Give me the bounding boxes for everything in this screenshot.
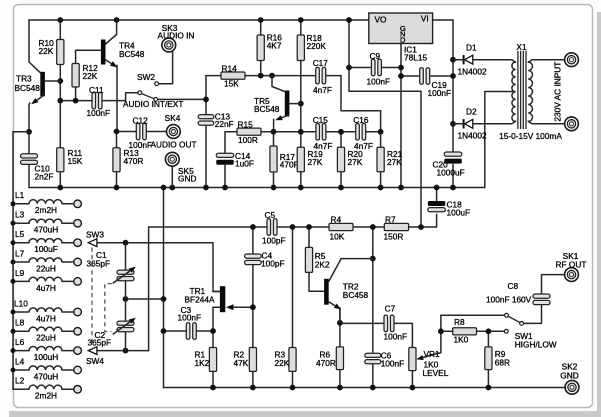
wire R16 column <box>260 20 262 76</box>
wire R10/R11 column <box>59 20 61 188</box>
svg-text:1N4002: 1N4002 <box>458 67 487 77</box>
wire TR1 gate lead <box>235 306 253 308</box>
capacitor C5 <box>267 219 277 236</box>
capacitor C4 <box>245 254 262 265</box>
svg-text:100uH: 100uH <box>34 352 58 362</box>
label R4 value <box>330 214 345 241</box>
label L10 <box>14 298 28 308</box>
svg-text:10K: 10K <box>330 231 345 241</box>
resistor R11 <box>57 148 64 172</box>
svg-text:L1: L1 <box>15 190 25 200</box>
svg-text:2m2H: 2m2H <box>35 205 57 215</box>
label R21 value <box>387 149 403 167</box>
wire tank top to SW4 column <box>148 227 150 351</box>
svg-text:C15: C15 <box>313 115 329 125</box>
node rail R17 <box>271 185 277 191</box>
svg-text:15K: 15K <box>68 156 83 166</box>
resistor R20 <box>337 147 344 172</box>
node R10/R11/C11 <box>57 98 63 104</box>
label C7 value <box>384 303 408 341</box>
node supply TR2coll <box>370 224 376 230</box>
resistor R4 <box>329 223 353 230</box>
resistor R8 <box>453 328 477 335</box>
svg-text:47K: 47K <box>234 358 249 368</box>
node C1 top <box>123 240 129 246</box>
resistor R16 <box>257 35 264 61</box>
capacitor C6 <box>365 353 381 364</box>
label AUDIO INT/EXT <box>123 99 183 109</box>
capacitor C12 <box>136 123 146 140</box>
wire C1/C2 junction to ground <box>126 298 164 300</box>
inductor L8 <box>11 327 82 335</box>
label L5 value <box>34 244 58 254</box>
svg-text:27K: 27K <box>308 157 323 167</box>
wire IC1 GND column <box>400 44 402 188</box>
svg-text:BC548: BC548 <box>254 104 280 114</box>
svg-text:1K2: 1K2 <box>195 358 210 368</box>
resistor R3 <box>289 348 296 372</box>
node rail IC gnd <box>398 185 404 191</box>
svg-text:100nF: 100nF <box>384 331 408 341</box>
label L3 value <box>34 225 58 235</box>
label L9 value <box>36 283 56 293</box>
wire SW2 ext contact to SK3 <box>159 52 173 84</box>
svg-text:100nF: 100nF <box>381 358 405 368</box>
wire C15/C16 ladder row <box>301 131 381 133</box>
page shadow right edge <box>597 12 601 417</box>
label SK3 <box>158 23 195 40</box>
svg-text:4n7F: 4n7F <box>314 141 333 151</box>
wire R13 column <box>116 132 118 188</box>
wire R9 column <box>487 331 489 387</box>
label R13 value <box>124 148 144 166</box>
label SW1 <box>515 331 557 350</box>
label SW2 <box>137 72 155 82</box>
transistor TR5 <box>272 76 301 132</box>
transformer X1 core <box>518 51 526 129</box>
inductor L1 <box>11 200 82 208</box>
label R6 value <box>316 350 336 368</box>
label C16 value <box>353 115 373 151</box>
node C19 right <box>450 73 456 79</box>
wire C8 to SK1 <box>542 275 565 294</box>
label L6 <box>15 337 25 347</box>
wire R12 column <box>75 50 77 100</box>
svg-text:R7: R7 <box>385 214 396 224</box>
node rail R21 <box>378 185 384 191</box>
label C11 value <box>87 85 111 118</box>
wire TR5 emitter node row <box>261 131 301 133</box>
wire C11 to SW2 <box>102 93 138 101</box>
svg-text:L2: L2 <box>15 376 25 386</box>
svg-text:4K7: 4K7 <box>267 40 282 50</box>
svg-text:100uF: 100uF <box>447 208 471 218</box>
svg-text:BC548: BC548 <box>119 49 145 59</box>
inductor L4 <box>11 366 82 374</box>
svg-text:100nF: 100nF <box>178 313 202 323</box>
label X1 rating <box>499 131 562 141</box>
svg-text:100nF: 100nF <box>367 76 391 86</box>
inductor L10 <box>11 308 82 316</box>
node gndcol/C3 <box>161 328 167 334</box>
node TR2 emitter <box>337 320 343 326</box>
node R19/C15 <box>298 129 304 135</box>
label C5 value <box>262 210 286 245</box>
transistor TR4 <box>76 20 118 67</box>
node rail R19 <box>298 185 304 191</box>
node rail R13 <box>114 185 120 191</box>
node SW2/C13 <box>203 97 209 103</box>
wire C18 top lead <box>436 188 438 201</box>
svg-text:68R: 68R <box>495 357 510 367</box>
label R3 value <box>275 350 290 368</box>
resistor R9 <box>485 347 492 370</box>
socket SK2 <box>565 380 579 394</box>
svg-text:22K: 22K <box>39 46 54 56</box>
wire coil bus <box>12 132 14 390</box>
variable capacitor C1 <box>113 243 136 299</box>
svg-text:C7: C7 <box>385 303 396 313</box>
label R10 value <box>39 38 55 56</box>
node gndcol/C1C2 <box>161 296 167 302</box>
wire R21 column <box>380 132 382 188</box>
label R1 value <box>195 350 210 368</box>
wire TR2 emitter/R6 column <box>339 308 341 388</box>
resistor R13 <box>113 148 120 172</box>
svg-text:4u7H: 4u7H <box>36 283 56 293</box>
svg-text:L7: L7 <box>15 248 25 258</box>
node TR5 collector <box>269 73 275 79</box>
svg-text:L8: L8 <box>15 318 25 328</box>
resistor R2 <box>249 348 256 372</box>
label C18 value <box>447 199 471 217</box>
label TR3 <box>15 74 41 94</box>
node C9 left <box>346 65 352 71</box>
capacitor C14 <box>216 153 234 165</box>
svg-text:1N4002: 1N4002 <box>458 131 487 141</box>
node supply C4 <box>250 224 256 230</box>
label SK5 GND <box>178 166 196 184</box>
label TR4 <box>119 41 145 60</box>
transistor TR3 <box>29 20 60 132</box>
node rail R11 <box>57 185 63 191</box>
svg-text:AUDIO IN: AUDIO IN <box>158 30 195 40</box>
svg-text:100pF: 100pF <box>262 235 286 245</box>
svg-text:GND: GND <box>560 370 578 380</box>
label L8 <box>15 318 25 328</box>
node brail R6 <box>337 385 343 391</box>
node TR5 emitter <box>271 129 277 135</box>
label C1 value <box>87 250 111 269</box>
node R18 top <box>298 17 304 23</box>
svg-text:L3: L3 <box>15 210 25 220</box>
svg-text:230V AC INPUT: 230V AC INPUT <box>553 62 563 122</box>
label R20 value <box>348 149 364 167</box>
inductor L2 <box>13 385 81 393</box>
label IC1 GND pin <box>400 24 406 45</box>
IC U1 78L15 box <box>369 13 433 44</box>
transistor TR1 JFET <box>213 286 235 312</box>
label R8 value <box>454 317 469 345</box>
svg-text:470uH: 470uH <box>34 225 58 235</box>
node VO feed tap <box>346 17 352 23</box>
node D2 anode <box>450 121 456 127</box>
label R16 value <box>267 33 283 51</box>
svg-text:L4: L4 <box>15 356 25 366</box>
svg-text:GND: GND <box>178 173 196 183</box>
socket AC neutral <box>565 117 579 131</box>
label R2 value <box>234 350 249 368</box>
label R15 value <box>238 119 258 145</box>
svg-text:15-0-15V 100mA: 15-0-15V 100mA <box>499 131 562 141</box>
resistor R1 <box>209 348 216 372</box>
svg-text:4u7H: 4u7H <box>36 313 56 323</box>
wire R3 column <box>292 227 294 388</box>
label R14 value <box>222 63 240 88</box>
svg-text:100R: 100R <box>238 135 258 145</box>
transformer X1 primary coil <box>507 60 516 124</box>
wire C12 row <box>117 131 167 133</box>
svg-text:VR1: VR1 <box>424 349 441 359</box>
wire SW2 common to C13/R14 node <box>158 98 207 100</box>
wire VO feed to oscillator <box>349 20 421 227</box>
svg-text:TR3: TR3 <box>16 74 32 84</box>
capacitor C8 <box>533 294 550 305</box>
capacitor C18 <box>428 201 446 212</box>
node C1/C2 mid <box>123 296 129 302</box>
socket SK3 <box>162 38 176 52</box>
label R17 value <box>280 152 300 170</box>
capacitor C20 <box>444 152 462 164</box>
label L8 value <box>36 333 56 343</box>
svg-text:C16: C16 <box>353 115 369 125</box>
resistor R19 <box>297 147 304 172</box>
label C8 value <box>486 281 532 305</box>
wire C17 output jog to R21 node <box>326 76 381 132</box>
svg-text:SW4: SW4 <box>86 356 104 366</box>
svg-text:C9: C9 <box>370 51 381 61</box>
label SW3 <box>86 229 104 239</box>
svg-text:D2: D2 <box>466 106 477 116</box>
resistor R6 <box>336 347 343 370</box>
svg-text:L5: L5 <box>15 229 25 239</box>
svg-text:100nF: 100nF <box>428 88 452 98</box>
label R11 value <box>68 148 83 166</box>
label TR5 <box>254 96 280 114</box>
label C12 value <box>129 115 153 150</box>
svg-text:RF OUT: RF OUT <box>556 259 587 269</box>
socket SK1 <box>565 268 579 282</box>
capacitor C3 <box>186 323 196 340</box>
svg-text:470R: 470R <box>124 156 144 166</box>
wire TR4 emitter column <box>116 65 118 131</box>
wire TR2 collector node column <box>372 227 374 388</box>
label X1 <box>516 42 527 52</box>
resistor R18 <box>297 35 304 61</box>
wire 0V ground rail <box>29 187 485 189</box>
svg-text:BC458: BC458 <box>343 290 369 300</box>
svg-text:100nF: 100nF <box>87 108 111 118</box>
wire rectifier + column <box>452 20 454 188</box>
svg-text:78L15: 78L15 <box>404 53 427 63</box>
svg-text:4n7F: 4n7F <box>313 85 332 95</box>
label C17 value <box>313 58 332 95</box>
transistor TR2 <box>324 259 373 323</box>
node C19 left <box>398 73 404 79</box>
resistor R17 <box>270 146 277 172</box>
svg-text:R8: R8 <box>454 317 465 327</box>
svg-text:AUDIO INT/EXT: AUDIO INT/EXT <box>123 99 183 109</box>
wire R20 column <box>340 132 342 188</box>
resistor R21 <box>377 147 384 172</box>
label C9 value <box>367 51 391 87</box>
svg-text:SK4: SK4 <box>165 113 181 123</box>
svg-text:470R: 470R <box>316 358 336 368</box>
capacitor C15 <box>316 124 326 141</box>
svg-text:BF244A: BF244A <box>185 294 215 304</box>
ganged link C1-C2 dashed <box>105 284 112 332</box>
wire SW3 wiper to TR1 drain <box>97 243 220 292</box>
svg-text:C11: C11 <box>89 85 104 95</box>
wire R17 column <box>273 132 275 188</box>
node rail C13 <box>203 185 209 191</box>
wire R5 column <box>309 227 324 291</box>
svg-text:C12: C12 <box>133 115 149 125</box>
label TR2 <box>343 282 369 301</box>
wire C13 to ground rail <box>205 124 207 187</box>
wire transformer centre tap <box>485 92 513 188</box>
transformer X1 secondary coil <box>528 60 564 124</box>
label R18 value <box>307 33 327 51</box>
wire C14 to ground rail <box>224 165 226 187</box>
wire SW1 common to C8 <box>524 305 542 324</box>
resistor R12 <box>72 64 79 88</box>
node rail gndcol <box>161 185 167 191</box>
wire bottom 0V rail <box>164 387 565 389</box>
svg-text:100uF: 100uF <box>34 244 58 254</box>
wire audio node R10/R12/C11 <box>60 100 92 102</box>
node rail C14 <box>222 185 228 191</box>
label C4 value <box>261 251 285 269</box>
label C10 value <box>35 164 54 182</box>
node supply R3 <box>290 224 296 230</box>
svg-text:L6: L6 <box>15 337 25 347</box>
node rail SK5 <box>169 185 175 191</box>
inductor L9 <box>11 277 82 285</box>
svg-text:365pF: 365pF <box>87 258 111 268</box>
label L9 <box>15 268 25 278</box>
wire R18/R19 column <box>300 20 302 188</box>
node SW1/R8/VR1 <box>438 328 444 334</box>
svg-text:SW2: SW2 <box>137 72 155 82</box>
wire VR1 wiper feed <box>440 331 442 352</box>
label R12 value <box>83 63 99 81</box>
svg-text:R4: R4 <box>331 214 342 224</box>
switch SW2 <box>138 82 159 102</box>
label L4 <box>15 356 25 366</box>
capacitor C16 <box>356 124 366 141</box>
node TR3 base <box>57 78 63 84</box>
resistor R14 <box>221 72 245 79</box>
svg-text:SW3: SW3 <box>86 229 104 239</box>
wire R14 left lead down <box>205 76 207 115</box>
socket SK4 <box>167 125 181 139</box>
svg-text:D: D <box>400 35 406 44</box>
svg-text:X1: X1 <box>516 42 527 52</box>
wire R15/C14 corner <box>225 132 237 153</box>
node D1 anode <box>450 57 456 63</box>
label L7 value <box>36 263 56 273</box>
svg-text:27K: 27K <box>348 157 363 167</box>
svg-text:220K: 220K <box>307 41 327 51</box>
label L2 <box>15 376 25 386</box>
node R14/R16 <box>258 73 264 79</box>
label R5 value <box>315 251 330 270</box>
svg-text:15K: 15K <box>224 79 239 89</box>
node brail R2 <box>250 385 256 391</box>
variable capacitor C2 <box>113 299 136 351</box>
node rail C20 <box>450 185 456 191</box>
label C13 value <box>215 111 234 129</box>
wire +15V top rail <box>29 19 369 21</box>
node TR4 collector rail <box>114 17 120 23</box>
capacitor C9 <box>371 59 381 76</box>
label C20 value <box>433 159 465 177</box>
svg-text:C17: C17 <box>313 58 329 68</box>
ganged link SW3-SW4 dashed <box>91 248 93 346</box>
svg-text:LEVEL: LEVEL <box>423 368 449 378</box>
wire R8 right to SW1 lower throw <box>477 330 505 332</box>
label C2 value <box>88 330 112 348</box>
svg-text:470uH: 470uH <box>34 371 58 381</box>
label R7 value <box>384 214 404 241</box>
label TR1 <box>185 286 215 305</box>
svg-text:22uH: 22uH <box>36 333 56 343</box>
node TR1 gate <box>250 304 256 310</box>
svg-text:100pF: 100pF <box>261 259 285 269</box>
node rail C18 <box>434 185 440 191</box>
svg-text:R14: R14 <box>222 63 238 73</box>
resistor R5 <box>305 247 312 272</box>
socket AC live <box>565 53 579 67</box>
label 230V AC INPUT <box>553 62 563 122</box>
svg-text:1u0F: 1u0F <box>235 159 254 169</box>
wire C3 line <box>164 330 214 332</box>
label C14 value <box>235 151 254 169</box>
socket SK5 <box>165 152 179 187</box>
label SW4 <box>86 356 104 366</box>
svg-text:4n7F: 4n7F <box>354 141 373 151</box>
svg-text:C5: C5 <box>265 210 276 220</box>
potentiometer VR1 <box>409 348 441 371</box>
diode D1 <box>453 55 507 64</box>
node TR3 emitter/C10 <box>26 129 32 135</box>
svg-text:100nF: 100nF <box>129 140 153 150</box>
wire C7 line <box>340 323 413 347</box>
label R9 value <box>495 349 510 367</box>
label R19 value <box>308 149 324 167</box>
label L3 <box>15 210 25 220</box>
node TR4 emitter/C12 <box>114 129 120 135</box>
resistor R10 <box>57 40 64 65</box>
label L1 <box>15 190 25 200</box>
svg-text:22uH: 22uH <box>36 263 56 273</box>
switch SW4 wiper <box>88 347 97 355</box>
svg-text:C8: C8 <box>508 281 519 291</box>
inductor L6 <box>11 346 82 354</box>
svg-text:L9: L9 <box>15 268 25 278</box>
node R8/R9 <box>486 328 492 334</box>
